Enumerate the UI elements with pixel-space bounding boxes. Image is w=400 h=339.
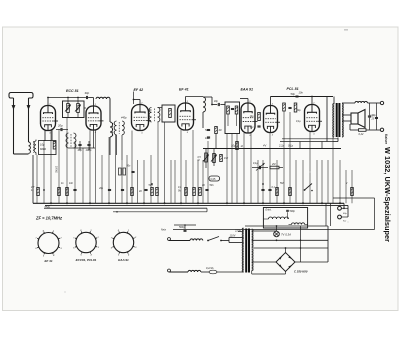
svg-text:10n: 10n: [299, 91, 304, 95]
svg-text:50n: 50n: [205, 128, 210, 132]
svg-text:5M: 5M: [280, 182, 283, 185]
svg-text:EAA 91: EAA 91: [118, 258, 129, 262]
svg-text:10µ: 10µ: [250, 116, 255, 118]
svg-text:7V 0,3A: 7V 0,3A: [281, 233, 291, 237]
svg-text:2,2µ: 2,2µ: [278, 144, 285, 148]
svg-text:500p: 500p: [179, 226, 185, 229]
svg-text:C 250 K80: C 250 K80: [294, 270, 308, 274]
svg-text:Netz: Netz: [161, 229, 167, 232]
svg-text:60kΩ: 60kΩ: [40, 147, 46, 151]
svg-text:4V: 4V: [263, 144, 266, 148]
svg-text:EF 41: EF 41: [179, 88, 189, 92]
svg-text:W 1032, UKW-Spezialsuper: W 1032, UKW-Spezialsuper: [383, 147, 392, 242]
svg-text:PCL 81: PCL 81: [287, 87, 299, 91]
svg-text:ECC81, PCL81: ECC81, PCL81: [76, 258, 97, 262]
svg-text:20µ: 20µ: [98, 188, 104, 190]
svg-text:Kaiser: Kaiser: [384, 134, 388, 145]
svg-text:Entst.: Entst.: [266, 209, 272, 212]
svg-text:0,22: 0,22: [359, 133, 364, 136]
svg-text:30p: 30p: [85, 91, 90, 95]
svg-text:440p: 440p: [121, 117, 127, 120]
svg-text:0,05: 0,05: [211, 178, 216, 181]
svg-text:25: 25: [371, 118, 375, 121]
svg-text:500p: 500p: [290, 210, 296, 213]
svg-text:100kΩ: 100kΩ: [55, 166, 57, 173]
svg-text:50p: 50p: [291, 92, 296, 96]
svg-text:EF 41: EF 41: [44, 259, 52, 263]
svg-text:40µ: 40µ: [297, 109, 302, 112]
svg-text:1W: 1W: [224, 156, 228, 160]
svg-text:Kw: Kw: [343, 221, 346, 223]
svg-text:0,2/1A: 0,2/1A: [206, 266, 214, 270]
svg-text:0,1µ: 0,1µ: [253, 162, 258, 165]
svg-text:2M: 2M: [271, 163, 275, 166]
svg-text:ZF = 10,7MHz: ZF = 10,7MHz: [35, 216, 63, 221]
svg-text:110V: 110V: [230, 234, 236, 238]
svg-text:EAA 91: EAA 91: [241, 88, 253, 92]
svg-text:ECC 81: ECC 81: [66, 89, 79, 93]
svg-text:20p: 20p: [57, 124, 63, 128]
svg-text:0,1µ: 0,1µ: [296, 120, 301, 123]
svg-text:440Ω: 440Ω: [45, 206, 51, 209]
svg-text:220V: 220V: [234, 229, 241, 233]
svg-text:EF 42: EF 42: [134, 88, 144, 92]
svg-text:50n: 50n: [210, 184, 215, 187]
svg-text:0,1µ: 0,1µ: [288, 144, 294, 148]
